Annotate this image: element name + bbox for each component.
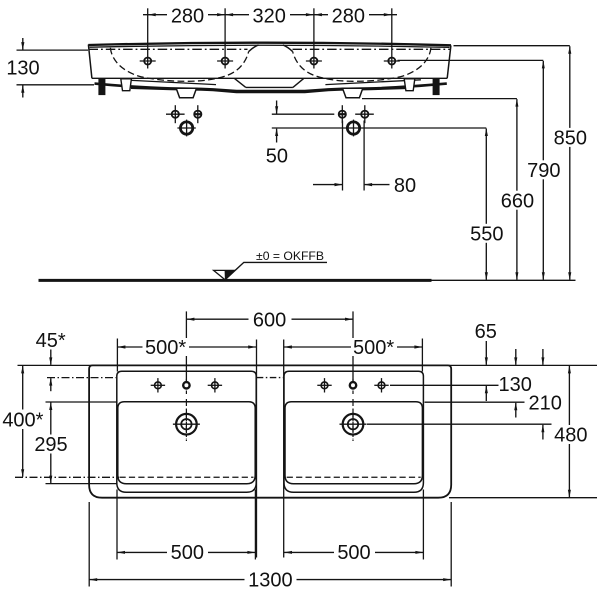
dimension 850 extension line [454,45,570,47]
elevation waterline dash-dot right run [293,48,451,50]
elevation basin left edge [88,45,92,79]
plan bowl left hidden bottom (dashed) [120,476,254,478]
plan deck opening left bowl [117,371,256,492]
dimension 50 line+arrows [276,101,278,114]
floor line thin continuation [432,279,576,281]
dimension 295 line+arrows [50,403,52,484]
svg-text:480: 480 [554,424,587,446]
elevation tap hole 3 centreline [313,8,315,68]
dimension 400* top extension line [18,364,90,366]
dimension 1300 extension lines [88,502,90,587]
dimension 660 extension line [362,98,517,100]
elevation wall bracket left (solid) [98,79,105,96]
plan bowl right hidden bottom (dashed) [287,476,421,478]
svg-text:320: 320 [253,5,286,27]
dimension 80 line+arrows [313,184,342,186]
plan outer ceramic outline [89,365,451,497]
elevation centre bridge hump right side [283,45,293,52]
elevation basin bottom edge [92,77,447,79]
dimension 45* lower extension line [47,377,116,379]
dimension chain extension ticks [167,6,208,25]
dimension 600 line+arrows [186,318,353,320]
plan side tap hole at x=214.9 [208,384,222,386]
elevation centre bridge hump left side [249,45,259,52]
dimension 500 bottom-left line+arrows [117,551,255,553]
elevation apron shadow line right [325,80,421,85]
elevation centre recess right slant [293,79,304,88]
elevation centre recess bottom [246,86,293,88]
elevation overflow hole right bowl (cross circle) [355,113,374,115]
elevation fixing tab left [121,79,132,91]
dimension 480 top extension line [89,364,597,366]
svg-text:80: 80 [394,175,416,197]
dimension 550 vertical line [485,129,487,280]
plan tap hole centre of bowl at x=186.4 [183,382,189,388]
elevation drain boss left [176,88,196,97]
plan centre gap extension line left [256,340,258,558]
svg-text:280: 280 [171,5,204,27]
svg-text:210: 210 [529,392,562,414]
svg-text:660: 660 [501,190,534,212]
elevation waterline dash-dot left run [89,48,248,50]
dimension 130 height line+arrows [22,38,24,50]
dimension 400* bottom extension line (dash-dot) [15,476,119,478]
dimension 130 height extension lines [17,49,89,51]
dimension 500* right line+arrows [284,346,423,348]
svg-text:130: 130 [6,58,39,80]
elevation drain outlet right bowl [353,120,355,137]
dimension 65 extension line [390,384,499,386]
svg-text:1300: 1300 [248,569,293,591]
plan centre gap dash-dot ledge line [257,377,284,379]
dimension 295 bottom extension line [46,483,117,485]
elevation fixing hole left bowl (bar circle) [197,105,199,123]
floor line (thick) [39,279,432,282]
plan side tap hole at x=324.5 [317,384,331,386]
svg-text:600: 600 [253,309,286,331]
svg-text:500*: 500* [145,337,186,359]
elevation drain outlet left bowl [177,127,195,129]
elevation hidden bowl outline right (dashed) [293,48,431,82]
svg-text:130: 130 [499,374,532,396]
dimension 500* left extension lines [116,339,118,372]
elevation underside thick contour [95,84,447,91]
plan centre gap extension line right [283,340,285,558]
dimension 480 bottom extension line [449,497,597,499]
dimension 850 vertical line [569,46,571,280]
elevation fixing tab right [404,79,415,91]
plan drain left bowl [173,423,200,425]
washbasin elevation rim top edge (arched) [88,43,451,46]
elevation hidden bowl outline left (dashed) [110,48,248,82]
elevation tap hole 2 centreline [224,8,226,68]
elevation overflow hole left bowl (cross circle) [166,113,185,115]
elevation basin right edge [447,45,451,78]
dimension 80 extension lines [342,121,344,191]
dimension 480 line+arrows [568,366,570,497]
dimension 210 extension line [367,423,552,425]
svg-text:500: 500 [171,542,204,564]
dimension chain 280/320/280 line [143,14,397,16]
dimension 130 plan extension line [425,401,525,403]
dimension 660 vertical line [516,99,518,280]
dimension 500 bottom-right extension line [422,490,424,560]
dimension 210 arrows [542,349,544,365]
svg-text:65: 65 [475,321,497,343]
dimension 500* left line+arrows [117,346,256,348]
svg-text:550: 550 [470,223,503,245]
dimension 130 plan arrows [515,349,517,365]
dimension 500 bottom-right line+arrows [284,551,423,553]
svg-text:295: 295 [34,434,67,456]
plan bowl right [285,402,422,484]
elevation underside lower band [131,88,410,92]
elevation centre recess left slant [235,79,246,88]
dimension 500 bottom-left extension lines [116,490,118,560]
elevation tap hole 4 centreline [391,8,393,68]
dimension 50 extension lines [272,113,335,115]
elevation fixing hole right bowl (bar circle) [341,105,343,123]
datum triangle filled half [225,270,234,279]
elevation tap hole 1 centreline [147,8,149,68]
plan side tap hole at x=157.9 [151,384,165,386]
plan deck opening right bowl [284,371,423,492]
plan centreline hole-to-drain bowl x=353.0 [352,399,354,441]
elevation rim second edge line [90,45,450,47]
svg-text:400*: 400* [2,409,43,431]
svg-text:50: 50 [266,145,288,167]
dimension 1300 line+arrows [89,579,451,581]
svg-text:45*: 45* [36,330,66,352]
dimension 790 vertical line [542,61,544,280]
elevation drain boss right [343,88,363,97]
svg-text:280: 280 [332,5,365,27]
elevation apron shadow line left [121,80,217,85]
svg-text:±0 = OKFFB: ±0 = OKFFB [256,249,324,263]
svg-text:850: 850 [554,128,587,150]
dimension 500* right extension line [421,339,423,372]
svg-text:500: 500 [337,542,370,564]
plan centreline hole-to-drain bowl x=186.4 [185,399,187,441]
svg-text:790: 790 [527,160,560,182]
datum triangle open half [214,270,234,279]
elevation wall bracket right (solid) [433,79,440,96]
plan bowl left [118,402,255,484]
plan tap hole centre of bowl at x=353.0 [350,382,356,388]
dimension 790 extension line [398,59,544,61]
dimension 400* line+arrows [22,366,24,477]
dimension 600 extension lines [185,311,187,381]
dimension 295 top extension line [46,401,117,403]
plan drain right bowl [340,423,367,425]
plan side tap hole at x=381.5 [374,384,388,386]
svg-text:500*: 500* [353,337,394,359]
datum leader line [226,262,327,279]
